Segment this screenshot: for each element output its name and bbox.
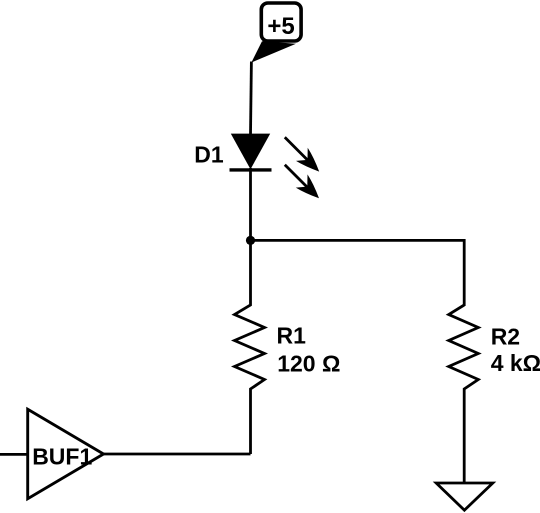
label R2: [491, 324, 520, 350]
svg-text:4 kΩ: 4 kΩ: [491, 350, 540, 376]
label R1 value 120 ohm: [277, 351, 340, 377]
svg-text:120 Ω: 120 Ω: [277, 351, 340, 377]
wire junction to R2 top: [251, 240, 465, 306]
svg-text:D1: D1: [194, 142, 224, 168]
label R1: [277, 323, 307, 349]
resistor R1: [235, 240, 265, 454]
svg-text:+5: +5: [267, 13, 294, 40]
power flag +5: [251, 3, 301, 63]
label R2 value 4 kohm: [491, 350, 540, 376]
LED light arrow 1: [285, 137, 319, 171]
label BUF1: [32, 443, 92, 469]
ground: [436, 483, 493, 510]
buffer BUF1: [28, 409, 104, 498]
LED light arrow 2: [285, 165, 319, 199]
svg-text:BUF1: BUF1: [32, 443, 92, 469]
svg-text:R2: R2: [491, 324, 520, 350]
wire from +5 flag to LED anode: [249, 62, 253, 135]
buffer input wire stub: [0, 453, 28, 456]
LED D1: [230, 134, 272, 170]
svg-text:R1: R1: [277, 323, 307, 349]
wire LED cathode to junction: [249, 168, 252, 242]
wire R1 bottom to buffer output: [103, 453, 251, 456]
node junction dot: [246, 236, 255, 245]
label D1: [194, 142, 224, 168]
resistor R2: [449, 305, 479, 484]
